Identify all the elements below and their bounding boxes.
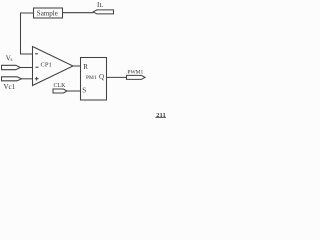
svg-text:S: S (82, 87, 86, 95)
svg-text:211: 211 (156, 112, 165, 119)
svg-text:R: R (83, 63, 88, 71)
svg-text:L: L (99, 2, 103, 9)
svg-text:Vc1: Vc1 (4, 83, 16, 91)
svg-text:Q: Q (99, 73, 104, 81)
svg-text:PWM1: PWM1 (127, 70, 143, 76)
svg-text:PM1: PM1 (86, 75, 97, 81)
svg-text:Sample: Sample (37, 9, 58, 17)
svg-text:CP1: CP1 (41, 62, 52, 69)
svg-text:CLK: CLK (54, 83, 67, 89)
svg-text:s: s (10, 57, 12, 63)
